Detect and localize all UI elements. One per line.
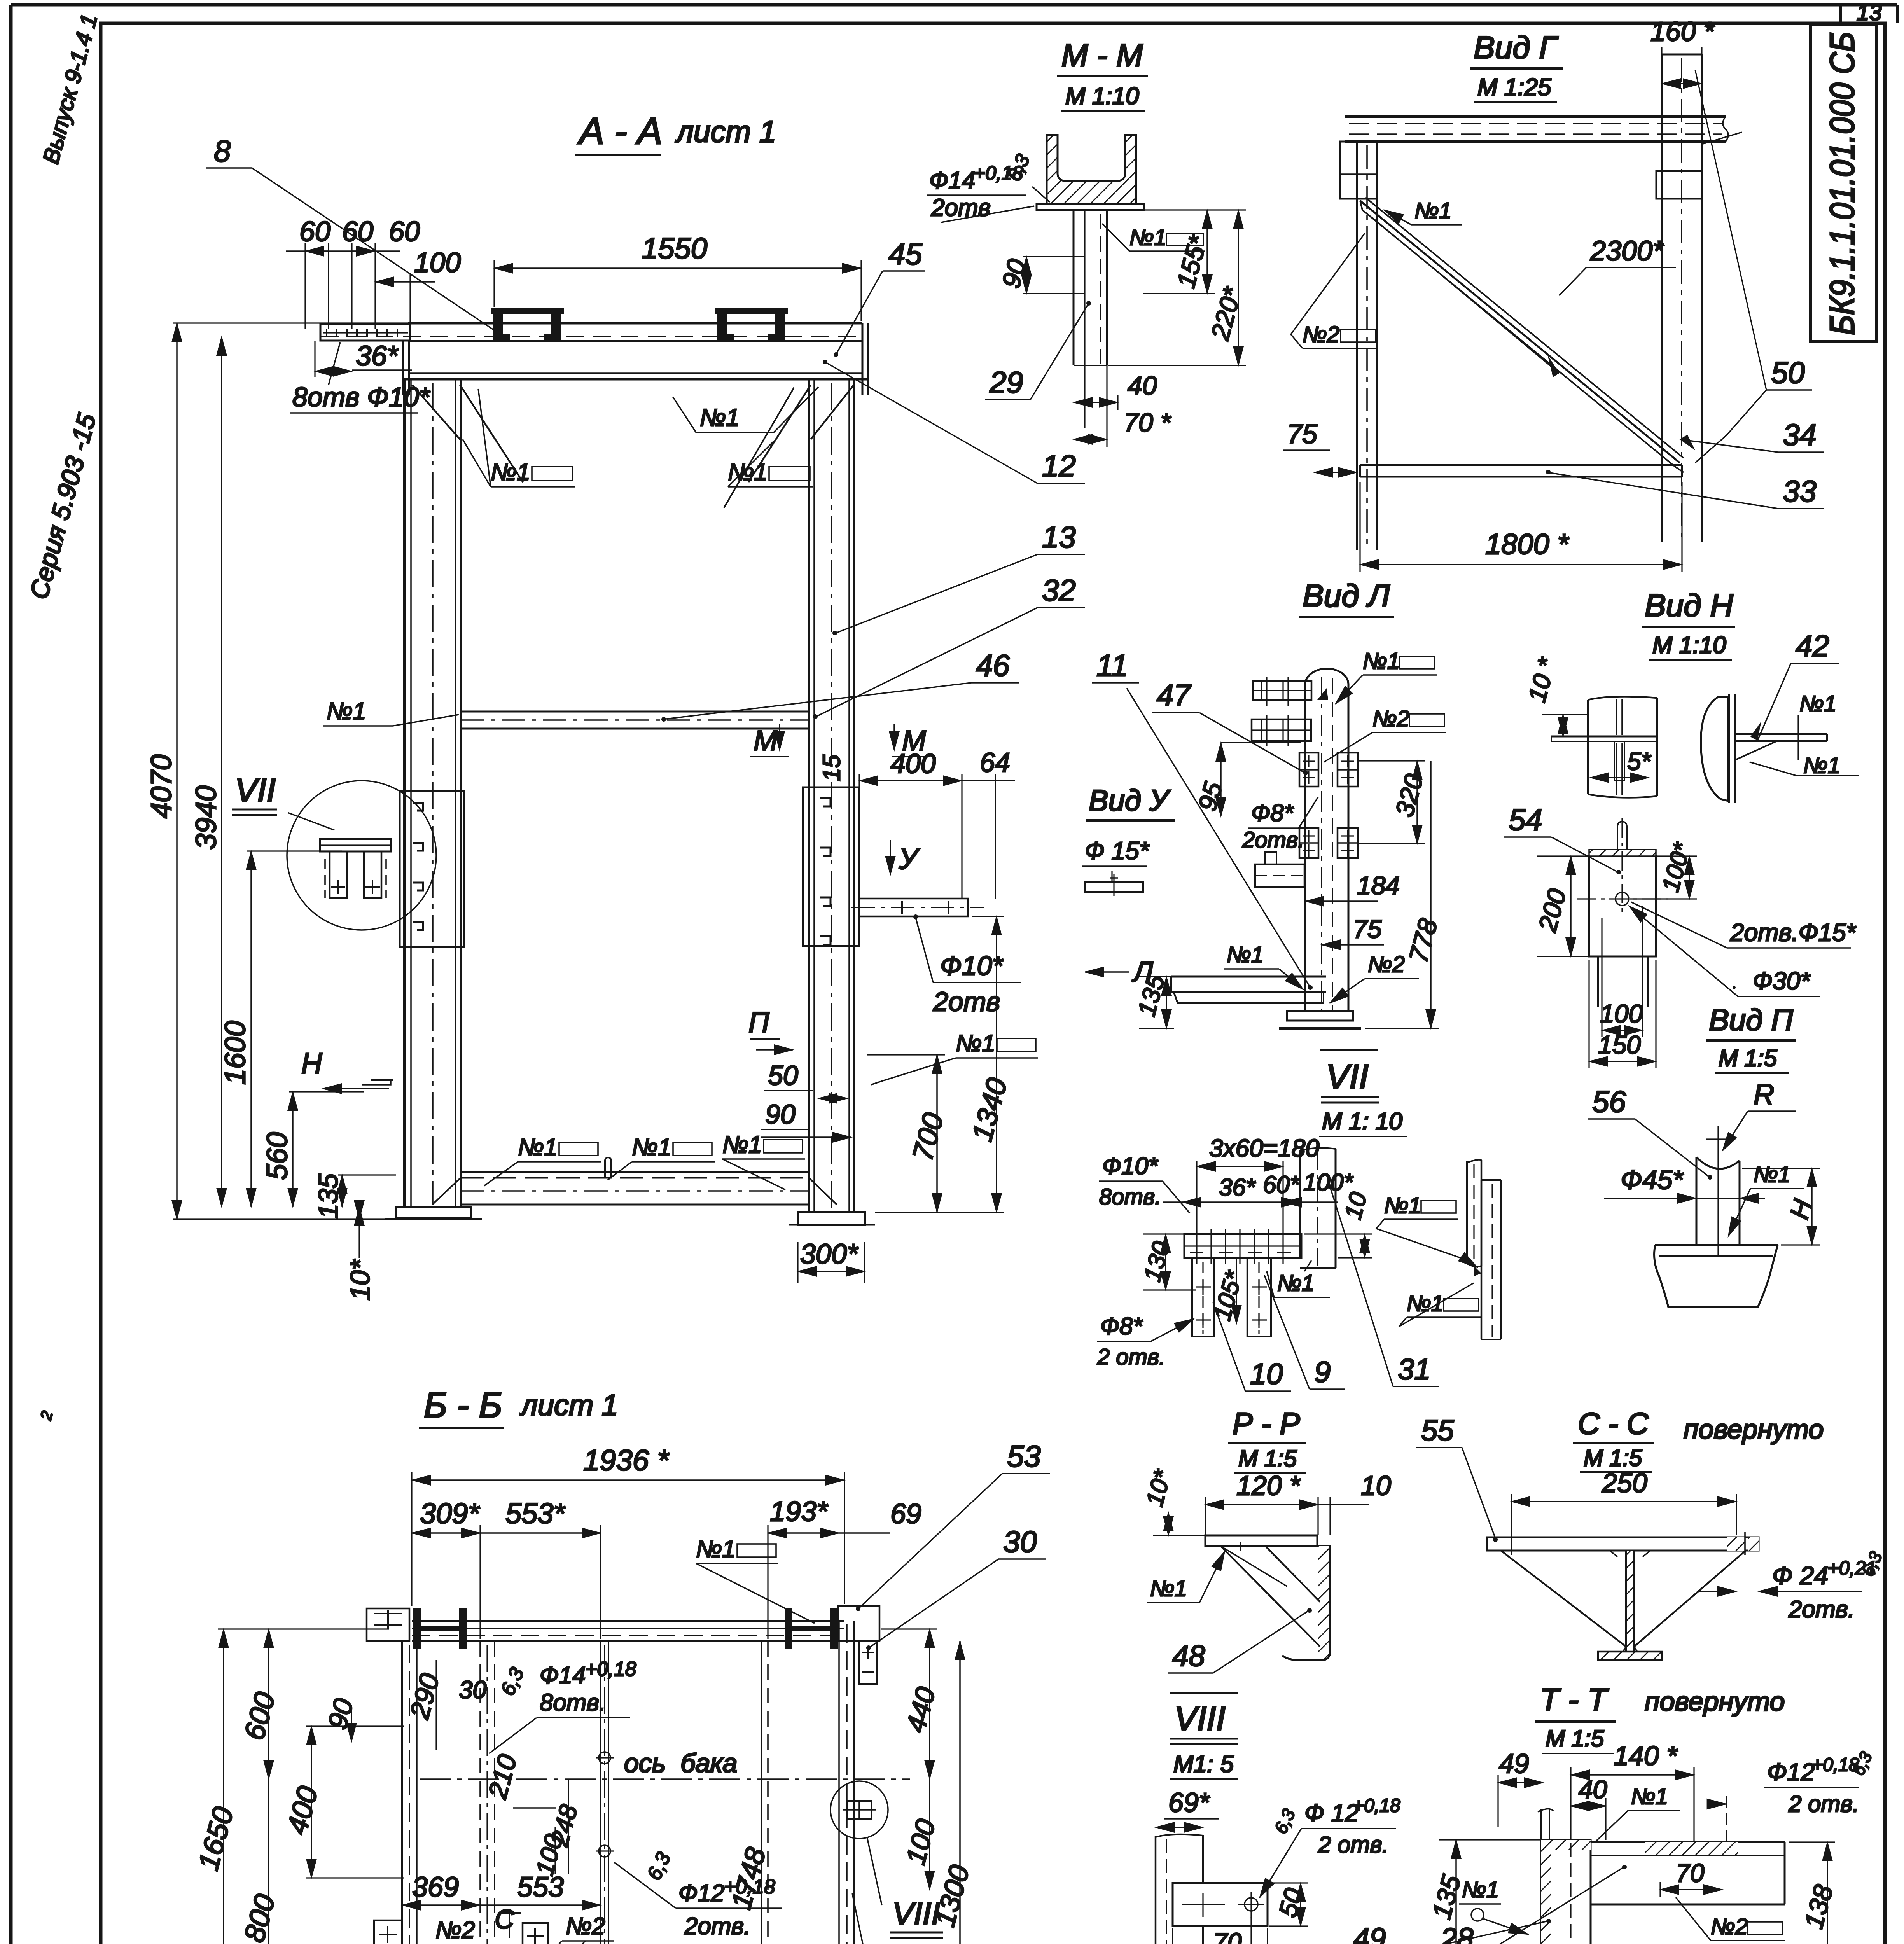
right tab with holes [851,899,984,916]
dim 135 [313,1173,396,1219]
svg-text:Ф14: Ф14 [540,1662,586,1689]
M-M post [1074,210,1107,428]
Л upper tab 2 [1252,715,1311,746]
dim 553 bottom [480,1872,601,1905]
label 46 [661,648,1019,722]
Л section arrow [1085,956,1153,988]
Л dim 95 arrow ext [1221,742,1301,743]
Г dim 75 [1283,419,1357,472]
bottom beam [432,1157,837,1205]
Т-Т dim 40 [1571,1767,1607,1840]
Т-Т flag N1 circle [1459,1877,1528,1934]
П flag N1 [1728,1162,1804,1236]
dim 100 right [900,1779,941,1890]
Л base [1171,977,1361,1028]
VII label Ф8 2отв [1097,1313,1194,1370]
svg-text:У: У [899,843,920,875]
label 8 [206,134,495,330]
dim 36* [315,341,412,377]
svg-text:№1: №1 [1414,198,1451,224]
С-С label Ф24 [1699,1548,1886,1623]
leader 24 [852,1893,962,1944]
top beam [321,323,868,395]
VII flag N1 under bar [1267,1260,1330,1297]
svg-text:9: 9 [1314,1356,1331,1389]
svg-text:БК9.1.1.01.01.000 СБ: БК9.1.1.01.01.000 СБ [1823,32,1861,335]
svg-text:М1: 5: М1: 5 [1173,1751,1234,1778]
svg-text:250: 250 [1602,1468,1647,1498]
dim 248 [545,1779,583,1874]
Л flag N1 bottom [1224,942,1303,989]
dim 400 64 [859,747,1015,899]
svg-text:31: 31 [1398,1353,1431,1386]
svg-text:1936 *: 1936 * [583,1444,670,1477]
VII leader 10 [1213,1302,1291,1391]
dim 30 [459,1676,487,1704]
VIII ref label [867,1837,943,1938]
svg-text:№1: №1 [327,698,366,725]
svg-text:2300*: 2300* [1590,236,1664,267]
svg-text:120 *: 120 * [1236,1470,1301,1501]
svg-text:Вид У: Вид У [1089,784,1171,817]
VII leader 31 [1327,1184,1439,1386]
SECTION Р-Р title [1228,1406,1306,1473]
VII horizontal bar [1184,1229,1301,1264]
VII label Ф10 8отв [1099,1153,1190,1213]
54 label 2отв Ф15 [1631,902,1857,948]
Г label 2300* [1372,218,1676,377]
П saddle [1696,1126,1740,1257]
54 label Ф30 [1629,906,1820,996]
BB holes on partition2 [596,1752,614,1857]
VII dim 105* [1209,1258,1248,1324]
svg-text:8: 8 [214,134,231,168]
П base beam [1654,1245,1778,1307]
svg-text:36*: 36* [1219,1174,1256,1201]
middle beam [461,712,809,729]
BB pad mid N2 [523,1923,548,1944]
VII label [232,772,334,830]
dim 69 [839,1498,921,1533]
svg-text:№2: №2 [1368,952,1405,977]
svg-text:№1: №1 [1462,1877,1499,1902]
VIEW A-A title [575,110,776,155]
svg-text:29: 29 [989,365,1023,399]
DETAIL 54 label [1504,802,1621,874]
VII right column [1300,1148,1336,1268]
54 dim 150 [1589,960,1656,1068]
VII dim 10 [1304,1189,1372,1258]
Г flag N2 [1291,233,1378,348]
left column plate zone [400,791,464,947]
svg-text:300*: 300* [800,1239,858,1270]
weld flag N1 right top [728,441,813,487]
svg-text:№1: №1 [1754,1162,1790,1187]
svg-text:70: 70 [1213,1928,1242,1944]
Л flag N2 bottom [1330,952,1419,1003]
M-M base plate [1037,204,1144,210]
svg-text:2отв: 2отв [933,986,1000,1017]
label 8отв Ф10* [290,342,431,413]
svg-text:М 1:5: М 1:5 [1238,1446,1297,1472]
svg-text:Р - Р: Р - Р [1233,1406,1300,1441]
BB partition 2 [601,1641,608,1944]
svg-text:56: 56 [1592,1084,1626,1119]
Т-Т channel column [1538,1809,1591,1944]
flag N2 mid [540,1913,614,1944]
svg-text:60: 60 [299,216,330,247]
VIII ref circle [830,1781,888,1839]
VIEW Вид Н title [1642,588,1735,660]
Г bottom tie [1360,465,1682,477]
svg-text:13: 13 [1857,0,1882,25]
svg-text:55: 55 [1421,1414,1454,1447]
section P cut [748,1006,793,1050]
BB top beam [412,1621,844,1641]
VII right plates [1467,1160,1501,1339]
Л small tab with nub [1255,852,1304,887]
svg-text:VIII: VIII [1174,1699,1226,1738]
svg-text:повернуто: повернуто [1645,1686,1785,1717]
dim 440 [881,1629,941,1779]
svg-text:50: 50 [1771,355,1805,390]
svg-text:Т - Т: Т - Т [1540,1682,1609,1718]
VII leader 9 [1264,1275,1345,1389]
Н right figure [1701,694,1827,803]
SECTION Т-Т title [1535,1682,1785,1753]
Р-Р label 48 [1168,1608,1312,1673]
dim 3940 [190,337,222,1207]
svg-text:М - М: М - М [1061,38,1143,73]
Т-Т dim 140* [1571,1741,1694,1843]
Г left column [1340,142,1377,550]
svg-text:1550: 1550 [642,232,707,265]
page number box 13 [1841,0,1897,25]
54 figure [1577,818,1668,1007]
dim 800 [238,1779,281,1944]
dim 1340 [875,916,1013,1212]
rail clip left [491,308,564,340]
svg-text:Вид П: Вид П [1709,1003,1793,1037]
Л dim 135 [1132,972,1174,1028]
section M cut [750,724,929,781]
svg-text:Б - Б: Б - Б [424,1385,502,1425]
VIII dim 69* [1156,1787,1219,1827]
bottom N1 flags [484,1134,601,1186]
svg-text:М 1:10: М 1:10 [1065,83,1139,110]
У plate [1085,874,1143,896]
M-M dim 220 [1108,210,1247,365]
С-С diagonals [1501,1551,1746,1647]
svg-text:42: 42 [1796,629,1829,663]
svg-text:553*: 553* [505,1497,565,1530]
svg-text:Вид Л: Вид Л [1303,578,1390,614]
dim 100 [375,247,461,329]
svg-text:М 1:5: М 1:5 [1719,1045,1777,1071]
stamp box top right [1811,24,1877,341]
VIII dim 50 [1269,1883,1308,1926]
VIEW Вид П title [1706,1003,1796,1073]
dim 210 [483,1751,556,1808]
M-M flag N1 [1102,224,1205,251]
svg-text:34: 34 [1783,418,1817,452]
BB partition 1 dashed [480,1641,495,1944]
VIEW M-M title [1057,38,1148,111]
Г flag N1 [1384,198,1462,225]
DETAIL VII title [1319,1050,1407,1136]
Р-Р dim 10 top [1318,1470,1391,1535]
svg-text:R: R [1754,1078,1774,1110]
svg-text:№1: №1 [1227,942,1264,967]
svg-text:№1: №1 [632,1134,671,1161]
svg-text:Ф 15*: Ф 15* [1085,837,1150,865]
svg-text:2отв.Ф15*: 2отв.Ф15* [1730,918,1857,946]
svg-text:№1: №1 [1799,691,1836,717]
svg-text:№1: №1 [956,1030,995,1057]
VII dims 36 60 100 [1163,1169,1353,1202]
54 dim 200 [1533,856,1589,956]
flag N2 left [397,1917,484,1944]
dim 300* bottom right [798,1239,865,1283]
svg-text:30: 30 [459,1676,487,1704]
Л dim 778 [1365,761,1443,1028]
dim 50 [764,1060,848,1098]
M-M channel section [1047,135,1136,204]
svg-text:49: 49 [1499,1748,1529,1779]
label Ф12 2отв BB [614,1849,782,1940]
svg-text:VII: VII [235,772,276,809]
Т-Т arm [1591,1842,1785,1904]
svg-text:150: 150 [1598,1030,1641,1059]
Л upper tab 1 [1253,677,1311,706]
Г leader 34 [1680,418,1824,452]
VII legs [1192,1258,1271,1337]
Н left figure column strip [1588,696,1657,797]
Р-Р top plate [1205,1535,1317,1546]
svg-text:5*: 5* [1627,747,1652,775]
VIEW Вид Л title [1299,578,1394,617]
svg-text:№1: №1 [696,1536,736,1563]
dim 1650 [192,1629,389,1944]
svg-text:33: 33 [1783,474,1817,508]
label 32 [813,573,1085,719]
svg-text:2отв.: 2отв. [1788,1596,1855,1623]
BB corner I-beam top-right [785,1606,879,1684]
Т-Т dim 135 [1427,1840,1540,1944]
svg-text:№1: №1 [1129,225,1166,250]
Т-Т label Ф12 [1715,1749,1876,1843]
svg-text:30: 30 [1003,1524,1037,1559]
svg-text:64: 64 [980,747,1010,778]
С-С label 55 [1416,1414,1498,1542]
dim 60 60 60 [286,216,420,329]
svg-text:160 *: 160 * [1650,16,1715,47]
VIII dim 70 [1203,1917,1251,1944]
Л dim 184 [1305,871,1400,901]
Р-Р dim 10* left [1141,1467,1205,1535]
svg-text:С - С: С - С [1578,1406,1649,1441]
Н dim 10* [1523,654,1588,736]
svg-text:Ф45*: Ф45* [1621,1164,1684,1195]
label Ф14 2отв near M-M [927,151,1050,222]
svg-text:400: 400 [890,748,936,779]
Л clips lower pair [1299,828,1358,858]
svg-text:Ф 12: Ф 12 [1304,1799,1359,1827]
rail clip right [715,308,788,340]
Л flag N1 top [1317,649,1437,704]
svg-text:2 отв.: 2 отв. [1318,1832,1388,1858]
svg-text:8отв Ф10*: 8отв Ф10* [292,382,431,412]
Р-Р flag N1 [1147,1551,1225,1603]
Т-Т flag N2 [1676,1897,1785,1941]
svg-text:Ф8*: Ф8* [1100,1313,1143,1340]
M-M dim 70 [1074,365,1172,447]
Л dim 320 [1359,761,1428,844]
dim 4070 [145,323,408,1219]
DETAIL VIII title [1170,1693,1238,1779]
VIEW Б-Б title [419,1385,618,1428]
top diagonal braces left [412,385,523,482]
dim 1748 [726,1844,772,1913]
Р-Р dim 120* [1205,1470,1318,1535]
BB ось бака [420,1748,910,1779]
Т-Т flag N1 [1594,1784,1680,1843]
svg-text:№2: №2 [435,1917,475,1944]
svg-text:1600: 1600 [219,1021,251,1085]
VII dim 3x60=180 [1197,1134,1319,1229]
BB corner I-beam top-left [367,1608,467,1649]
svg-text:М 1:5: М 1:5 [1584,1445,1642,1471]
weld flag N1 mid-beam left [323,698,459,726]
svg-text:3х60=180: 3х60=180 [1209,1134,1319,1162]
svg-text:повернуто: повернуто [1684,1414,1824,1444]
svg-text:М 1:25: М 1:25 [1477,74,1551,101]
svg-text:10: 10 [1250,1358,1283,1391]
svg-text:А - А: А - А [577,110,662,152]
svg-text:2отв: 2отв [931,194,991,221]
svg-text:560: 560 [261,1132,293,1180]
svg-text:309*: 309* [420,1497,480,1530]
svg-text:№2: №2 [1711,1914,1748,1939]
dim 1600 [219,851,342,1207]
svg-text:М: М [754,724,778,757]
Л dim 95 [1192,743,1228,816]
svg-text:№2: №2 [1303,322,1339,347]
Г dim 160* [1650,16,1715,91]
У label Ф15 [1082,837,1150,882]
svg-text:№1: №1 [518,1134,558,1161]
svg-text:лист 1: лист 1 [675,114,776,149]
svg-text:№2: №2 [566,1913,605,1940]
svg-text:№1: №1 [1631,1784,1668,1809]
svg-text:50: 50 [768,1060,798,1091]
svg-text:№1: №1 [700,404,740,431]
svg-text:47: 47 [1157,678,1191,712]
M-M dim 90 [996,256,1085,294]
svg-text:3940: 3940 [190,785,222,850]
svg-text:Вид Н: Вид Н [1645,588,1733,623]
VII detail circle [287,781,436,930]
VII right flag N1 upper [1376,1193,1477,1267]
top hole plate [320,324,410,341]
svg-text:48: 48 [1172,1640,1205,1673]
svg-text:4070: 4070 [145,754,177,818]
svg-text:135: 135 [313,1173,343,1219]
dim 553* [480,1497,601,1639]
svg-text:2 отв.: 2 отв. [1788,1791,1859,1817]
dim 309* [412,1497,480,1639]
dim 1936* [412,1444,844,1606]
svg-text:1800 *: 1800 * [1485,528,1569,560]
leader 49 [1348,1919,1551,1944]
Л label 47 [1152,678,1308,775]
section C cut top [495,1904,521,1938]
label 53 [856,1439,1050,1611]
BB partition 3 [761,1641,768,1944]
svg-text:70 *: 70 * [1124,408,1172,437]
label 11 [1092,648,1313,990]
Л flag N2 [1324,706,1446,762]
outer border left [9,5,13,1944]
svg-text:№1: №1 [1384,1193,1421,1218]
VIII strip [1156,1834,1203,1944]
right column gusset plates [803,787,859,946]
svg-text:10: 10 [1361,1470,1391,1501]
section U arrow [890,840,920,875]
svg-text:553: 553 [517,1872,564,1903]
svg-text:184: 184 [1357,871,1400,900]
Т-Т dim 49 [1498,1748,1543,1827]
Н plate [1551,736,1657,780]
svg-text:60*: 60* [1263,1171,1300,1198]
svg-text:М 1: 10: М 1: 10 [1322,1108,1402,1135]
svg-text:№1: №1 [1150,1576,1187,1601]
Г top beam [1345,117,1728,142]
M-M dim 40 [1074,371,1157,410]
dim 700 right [867,1055,949,1212]
dim 10* [345,1207,375,1301]
M-M label 29 [985,301,1091,400]
svg-text:369: 369 [412,1872,459,1903]
top diagonal braces right [724,385,854,508]
dim 90 [761,1099,851,1137]
svg-text:М 1:10: М 1:10 [1652,632,1726,659]
label 45 [834,237,925,357]
П label R [1722,1078,1796,1151]
svg-text:75: 75 [1287,419,1318,449]
left column [404,379,461,1207]
svg-text:Ф14: Ф14 [929,167,975,194]
dim 90 [322,1695,359,1742]
Л label Ф8 2отв [1242,797,1318,853]
BB right wall [839,1621,854,1944]
svg-text:193*: 193* [770,1496,828,1527]
dim 560 [261,1092,364,1207]
dim 1550 [494,232,861,321]
svg-text:8отв.: 8отв. [1099,1184,1161,1210]
Р-Р channel [1240,1542,1330,1660]
svg-text:№2: №2 [1372,706,1409,731]
svg-text:№1: №1 [491,459,530,486]
label Ф14 8отв BB [489,1658,636,1753]
dim 600 [238,1629,281,1779]
weld flag N1 beam right [673,387,818,432]
svg-text:13: 13 [1042,520,1076,554]
54 dim 100* [1630,839,1697,899]
svg-text:54: 54 [1509,802,1542,837]
svg-text:60: 60 [389,216,420,247]
svg-text:2отв.: 2отв. [684,1913,750,1940]
